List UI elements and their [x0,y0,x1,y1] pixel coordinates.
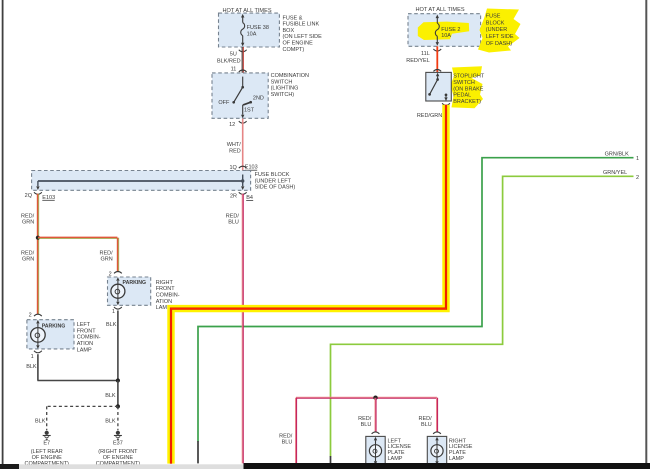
junction BLK wires [116,378,120,382]
highlighter mark over STOPLIGHT SWITCH label [451,66,484,108]
wire WHT/RED (switch to fuse block) [242,119,244,171]
fuse block box outline (dashed) [32,171,251,191]
svg-text:1: 1 [112,309,115,315]
label: 2ND [253,96,264,102]
wire BLK dashed to ground E37 [117,406,119,430]
svg-text:RED/GRN: RED/GRN [417,113,442,119]
label: BLK/RED [217,58,241,64]
label: E7 (LEFT REAR OF ENGINE COMPARTMENT) [24,441,69,467]
svg-text:RED/: RED/ [21,250,35,256]
bottom bar black left corner [0,464,19,469]
svg-text:SIDE OF DASH): SIDE OF DASH) [255,185,296,191]
svg-text:COMBIN-: COMBIN- [77,335,101,341]
label: PARKING (left) [42,324,66,330]
wire GRN/YEL (circuit 2) [331,176,634,456]
wire GRN/YEL black end segment [330,456,332,463]
svg-text:1: 1 [636,156,639,162]
fuse block box outline (right, dashed) [408,14,481,47]
combination switch contacts (OFF / 1ST / 2ND) [232,77,252,119]
svg-text:E7: E7 [43,441,50,447]
label: GRN/YEL [603,170,627,176]
connector B4 (pin 2R) [230,192,253,201]
svg-text:1: 1 [31,354,34,360]
wire BLK from right lamp [117,311,119,381]
svg-text:(UNDER: (UNDER [486,27,507,33]
svg-text:BLK: BLK [105,418,116,424]
svg-text:GRN: GRN [100,257,112,263]
highlighter mark over FUSE BLOCK label [478,9,521,53]
wire GRN/BLK (circuit 1) [198,158,634,442]
svg-text:(ON BRAKE: (ON BRAKE [453,86,484,92]
svg-text:RED/: RED/ [226,213,240,219]
label: OFF [218,100,230,106]
left front combination lamp box outline [27,320,74,349]
label: RED/GRN (lower left) [21,250,35,262]
svg-text:2: 2 [636,175,639,181]
label: RIGHT LICENSE PLATE LAMP [449,438,473,462]
svg-text:RED/: RED/ [279,433,293,439]
svg-text:FUSE: FUSE [486,14,501,20]
connector at right front lamp pin 2 [109,272,122,278]
wire RED/BLU drop to left license lamp [375,398,376,432]
svg-text:(LIGHTING: (LIGHTING [271,86,299,92]
svg-text:5U: 5U [230,52,237,58]
fuse FUSE 2 10A [435,15,460,46]
wire RED/GRN branch (to right front lamp) [38,237,119,271]
svg-text:BLU: BLU [361,422,372,428]
label: RED/BLU (riser) [279,433,293,445]
svg-text:COMBIN-: COMBIN- [156,293,180,299]
wire BLK down to splice [117,381,119,407]
label: FUSE BLOCK (UNDER LEFT SIDE OF DASH) - right [486,14,514,47]
wire RED/BLU (license lamp feed riser) [296,398,297,464]
label: 1ST [244,107,255,113]
label: BLK (E37 leg) [105,418,116,424]
svg-text:SWITCH: SWITCH [271,79,293,85]
svg-text:2Q: 2Q [25,193,33,199]
svg-text:HOT AT ALL TIMES: HOT AT ALL TIMES [415,7,464,13]
fuse & fusible link box outline [219,13,280,47]
label: COMBINATION SWITCH (LIGHTING SWITCH) [271,73,309,98]
bottom bar grey (scroll area) [19,464,244,469]
wire BLK/RED (fuse box to switch) [242,47,243,73]
svg-text:PARKING: PARKING [123,280,147,286]
label: PARKING (right) [123,280,147,286]
svg-text:ATION: ATION [156,299,172,305]
junction on RED/GRN [36,236,40,240]
svg-text:STOPLIGHT: STOPLIGHT [453,74,485,80]
label: RED/GRN (upper) [21,213,35,225]
connector at left license lamp [372,432,380,434]
svg-text:11: 11 [231,67,237,73]
svg-text:ATION: ATION [77,341,93,347]
svg-text:COMBINATION: COMBINATION [271,73,309,79]
svg-text:FRONT: FRONT [156,286,176,292]
page border left [2,0,4,464]
connector 11L [421,49,441,57]
wire RED/GRN (stoplight switch to bottom, highlighted) [171,105,446,464]
pin 11 of combination switch [231,67,247,77]
wire GRN/BLK black end segment [197,441,199,463]
wire RED/BLU (license lamp bus) [296,397,437,398]
label: BLK (E7 leg) [35,418,46,424]
svg-text:COMPT): COMPT) [283,47,305,53]
bottom bar black (right) [244,463,650,469]
page border right [645,0,647,463]
label: FUSE & FUSIBLE LINK BOX (ON LEFT SIDE OF ENGINE COMPT) [283,15,323,53]
svg-text:BLU: BLU [421,422,432,428]
connector below stoplight switch [442,103,450,105]
svg-text:BLK: BLK [26,364,37,370]
svg-text:10A: 10A [247,31,257,37]
svg-text:(ON LEFT SIDE: (ON LEFT SIDE [283,34,323,40]
svg-text:FRONT: FRONT [77,328,97,334]
wire RED/BLU (fuse block 2R to bottom) [242,194,243,464]
svg-text:PARKING: PARKING [42,324,66,330]
svg-text:SWITCH: SWITCH [453,80,475,86]
svg-text:2R: 2R [230,193,237,199]
node 1 (GRN/BLK) [636,156,639,162]
label: RED/GRN (stop lamp feed) [417,113,442,119]
svg-text:SWITCH): SWITCH) [271,92,295,98]
junction license lamp bus [373,396,377,400]
highlighter mark along RED/GRN stop lamp wire [171,105,446,464]
connector at right license lamp [433,432,441,434]
label: E37 (RIGHT FRONT OF ENGINE COMPARTMENT) [96,441,141,467]
svg-text:(UNDER LEFT: (UNDER LEFT [255,178,292,184]
svg-text:BLU: BLU [282,440,293,446]
svg-text:RED/: RED/ [100,250,114,256]
svg-text:2: 2 [29,312,32,318]
svg-text:RED/YEL: RED/YEL [406,58,430,64]
svg-text:PEDAL: PEDAL [453,93,471,99]
wire RED/YEL (fuse 2 to stoplight switch) [436,46,438,72]
connector at left front lamp pin 2 [29,312,42,318]
svg-text:RED/: RED/ [358,416,372,422]
label: BLK (below junction) [105,393,116,399]
label: RED/BLU (right license) [419,416,433,428]
svg-text:GRN/YEL: GRN/YEL [603,170,627,176]
label: STOPLIGHT SWITCH (ON BRAKE PEDAL BRACKET) [453,74,485,106]
stoplight switch box outline [426,72,452,101]
label: RED/BLU (at fuse block) [226,213,240,225]
svg-text:FUSIBLE LINK: FUSIBLE LINK [283,22,320,28]
svg-text:OF DASH): OF DASH) [486,41,512,47]
node 2 (GRN/YEL) [636,175,639,181]
splice junction [116,404,120,408]
connector 5U [230,50,247,58]
svg-text:BLK: BLK [105,393,116,399]
svg-text:WHT/: WHT/ [227,142,242,148]
wire RED/BLU drop to right license lamp [437,398,438,432]
left license plate lamp [366,436,385,465]
wire RED/GRN (fuse block 2Q down to left front lamp) [38,194,39,314]
svg-text:RED: RED [229,148,241,154]
svg-text:1ST: 1ST [244,107,255,113]
svg-text:BOX: BOX [283,28,295,34]
svg-text:2ND: 2ND [253,96,264,102]
label: RED/GRN (branch) [100,250,114,262]
right license plate lamp [427,436,446,465]
lamp bulb (left front parking) [31,320,46,349]
svg-text:BLU: BLU [228,220,239,226]
svg-text:12: 12 [229,122,235,128]
svg-text:FUSE 2: FUSE 2 [441,27,460,33]
svg-text:LAMP: LAMP [449,456,464,462]
label: HOT AT ALL TIMES (right feed) [415,7,464,13]
fuse FUSE 38 10A [241,14,269,47]
fuse block internal bus bar [36,175,244,191]
svg-text:OFF: OFF [218,100,230,106]
lamp bulb (right front parking) [111,277,125,305]
svg-text:RED/: RED/ [419,416,433,422]
connector E103 (pin 1Q) [229,165,257,175]
wire BLK from left lamp [37,354,118,380]
svg-text:FUSE BLOCK: FUSE BLOCK [255,172,290,178]
svg-text:BRACKET): BRACKET) [453,99,481,105]
wire BLK dashed to ground E7 [47,406,118,430]
stoplight switch contacts [428,73,447,101]
label: HOT AT ALL TIMES (left feed) [222,8,271,14]
highlighter mark over FUSE 2 [418,22,469,40]
svg-text:BLK: BLK [35,418,46,424]
svg-text:GRN: GRN [22,257,34,263]
svg-text:LAMP: LAMP [388,456,403,462]
connector E103 (pin 2Q) [25,192,56,201]
svg-text:BLK: BLK [106,322,117,328]
label: LEFT FRONT COMBINATION LAMP [77,322,101,353]
svg-text:RED/: RED/ [21,213,35,219]
label: LEFT LICENSE PLATE LAMP [388,438,412,462]
connector at right front lamp pin 1 [112,307,122,315]
svg-text:GRN/BLK: GRN/BLK [605,152,629,158]
svg-text:LEFT: LEFT [77,322,91,328]
svg-text:GRN: GRN [22,220,34,226]
pin 12 of combination switch [229,121,247,128]
connector above stoplight switch [433,70,441,72]
combination switch box outline [212,73,268,118]
svg-text:11L: 11L [421,51,430,57]
svg-text:FUSE 38: FUSE 38 [247,25,269,31]
connector at left front lamp pin 1 [31,351,42,361]
svg-text:E37: E37 [113,441,123,447]
svg-text:LEFT SIDE: LEFT SIDE [486,34,514,40]
right front combination lamp box outline [108,277,151,305]
label: RIGHT FRONT COMBINATION LAMP [156,280,180,311]
label: RED/BLU (left license) [358,416,372,428]
svg-text:LAMP: LAMP [77,347,92,353]
svg-text:BLK/RED: BLK/RED [217,58,241,64]
label: BLK (left lamp) [26,364,37,370]
label: WHT/RED [227,142,242,154]
svg-text:OF ENGINE: OF ENGINE [283,41,314,47]
svg-text:RIGHT: RIGHT [156,280,174,286]
label: RED/YEL [406,58,430,64]
label: FUSE BLOCK (UNDER LEFT SIDE OF DASH) [255,172,296,191]
label: GRN/BLK [605,152,629,158]
svg-text:BLOCK: BLOCK [486,20,505,26]
ground E37 [114,431,122,440]
ground E7 [43,431,51,440]
svg-text:FUSE &: FUSE & [283,15,303,21]
svg-text:10A: 10A [441,33,451,39]
label: BLK (right lamp) [106,322,117,328]
